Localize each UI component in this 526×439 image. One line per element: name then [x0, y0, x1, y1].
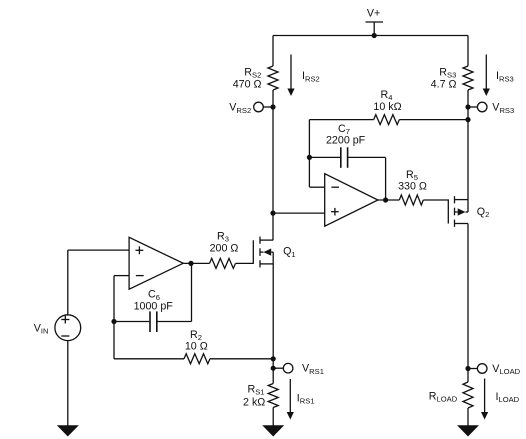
- transistor Q1 body arrow: [260, 249, 273, 256]
- junction C7 branch: [307, 155, 312, 160]
- wire RS1 to ground: [272, 408, 274, 426]
- wire RS2 to VRS2 node: [272, 90, 274, 107]
- wire R5 to Q2 gate: [423, 199, 448, 201]
- resistor R5: [399, 195, 423, 205]
- resistor RS1: [268, 384, 278, 408]
- wire VIN to U1 plus: [68, 250, 129, 315]
- label R4: [381, 89, 393, 102]
- wire feedback left vertical: [308, 120, 310, 187]
- transistor Q2 channel: [454, 196, 456, 227]
- wire R4 left lead: [309, 119, 373, 121]
- wire V+ rail to RS3: [467, 36, 469, 67]
- current arrow IRS1: [287, 379, 294, 420]
- label RS2: [244, 67, 261, 80]
- wire VRS3 to R4 junction: [467, 107, 469, 120]
- ground RS1: [262, 425, 284, 436]
- current arrow IRS3: [483, 55, 490, 97]
- label VRS3: [492, 102, 514, 115]
- value C6 1000 pF: [134, 301, 174, 313]
- svg-text:10 kΩ: 10 kΩ: [373, 101, 401, 113]
- label IRS1: [297, 393, 315, 406]
- node VRS2: [254, 102, 276, 112]
- resistor R4: [374, 115, 400, 125]
- label IRS2: [302, 70, 320, 83]
- junction R2 left rail: [271, 356, 276, 361]
- label R5: [406, 169, 418, 182]
- wire Q1 source to R2 junction: [272, 264, 274, 359]
- current arrow IRS2: [287, 55, 294, 97]
- label VRS2: [229, 102, 251, 115]
- wire U1 output: [183, 262, 209, 264]
- transistor Q2 drain tab: [455, 199, 469, 201]
- value R4 10 kohm: [373, 101, 401, 113]
- resistor RS2: [268, 66, 278, 90]
- svg-text:10 Ω: 10 Ω: [185, 340, 208, 352]
- junction U2 plus tap: [270, 211, 275, 216]
- transistor Q2 gate bar: [447, 199, 449, 223]
- label Q1: [283, 246, 296, 259]
- value R3 200 ohm: [210, 243, 239, 255]
- power V+ supply symbol: [366, 8, 384, 36]
- value RS2 470 ohm: [233, 79, 262, 91]
- resistor R2: [184, 354, 210, 364]
- wire right rail R4 to Q2: [467, 120, 469, 212]
- junction V+ to top rail: [372, 33, 377, 38]
- node VRS3: [465, 102, 487, 112]
- label RLOAD: [429, 391, 458, 404]
- wire VRS1 to RS1: [272, 368, 274, 383]
- capacitor C6: [150, 311, 157, 332]
- wire U2 output: [378, 199, 399, 201]
- svg-text:470 Ω: 470 Ω: [233, 79, 262, 91]
- svg-text:330 Ω: 330 Ω: [398, 180, 427, 192]
- label VLOAD: [492, 363, 520, 376]
- svg-text:4.7 Ω: 4.7 Ω: [431, 79, 457, 91]
- junction U1 output: [188, 261, 193, 266]
- resistor R3: [210, 258, 236, 268]
- junction C6 branch: [111, 319, 116, 324]
- svg-text:2 kΩ: 2 kΩ: [243, 396, 265, 408]
- label VIN: [34, 323, 49, 336]
- svg-text:1000 pF: 1000 pF: [134, 301, 174, 313]
- value R2 10 ohm: [185, 340, 208, 352]
- svg-text:200 Ω: 200 Ω: [210, 243, 239, 255]
- label R2: [190, 329, 202, 342]
- capacitor C7: [341, 147, 348, 168]
- wire R4 right lead: [399, 119, 468, 121]
- wire R2 left lead: [114, 358, 184, 360]
- node VLOAD: [465, 364, 487, 374]
- wire top rail: [273, 35, 468, 37]
- label RS3: [439, 67, 456, 80]
- wire RLOAD to ground: [467, 408, 469, 426]
- op-amp U1: [129, 237, 183, 289]
- wire U2 plus input: [273, 212, 325, 214]
- wire C6 left lead: [114, 321, 149, 323]
- wire left rail VRS2 to Q1 drain: [272, 107, 274, 240]
- wire VIN to ground: [67, 341, 69, 426]
- label R3: [217, 230, 229, 243]
- wire R2 left vertical: [113, 322, 115, 359]
- label VRS1: [302, 363, 324, 376]
- wire R2 junction to VRS1: [272, 359, 274, 368]
- ground load: [457, 425, 479, 436]
- transistor Q1 drain tab: [260, 239, 273, 241]
- ground VIN: [57, 425, 79, 436]
- wire RS3 to VRS3 node: [467, 90, 469, 107]
- resistor RLOAD: [463, 382, 473, 408]
- node VRS1: [271, 363, 293, 373]
- wire C7 left lead: [309, 156, 340, 158]
- svg-text:V+: V+: [367, 8, 380, 20]
- label C7: [338, 123, 350, 136]
- resistor RS3: [463, 66, 473, 90]
- transistor Q1 gate bar: [252, 240, 254, 264]
- junction R4 right rail: [465, 117, 470, 122]
- op-amp U2: [325, 174, 378, 227]
- wire R3 to Q1 gate: [236, 262, 254, 264]
- wire Q1 body to source: [272, 252, 274, 264]
- svg-text:2200 pF: 2200 pF: [326, 135, 366, 147]
- wire C7 right lead: [348, 157, 385, 200]
- wire C6 right lead: [158, 263, 192, 321]
- current arrow ILOAD: [481, 379, 488, 420]
- transistor Q2 body arrow: [455, 208, 469, 215]
- label C6: [148, 289, 160, 302]
- value RS3 4.7 ohm: [431, 79, 457, 91]
- label RS1: [247, 384, 264, 397]
- source VIN: [55, 315, 81, 341]
- wire U1 minus input: [114, 276, 129, 322]
- value R5 330 ohm: [398, 180, 427, 192]
- wire V+ rail to RS2: [272, 36, 274, 67]
- transistor Q2 source tab: [455, 223, 469, 225]
- wire U2 minus input: [309, 186, 324, 188]
- wire VLOAD to RLOAD: [467, 369, 469, 383]
- value C7 2200 pF: [326, 135, 366, 147]
- junction U2 output: [383, 197, 388, 202]
- wire R2 right lead: [210, 358, 273, 360]
- label Q2: [477, 206, 490, 219]
- transistor Q1 channel: [259, 237, 261, 268]
- value RS1 2 kohm: [243, 396, 265, 408]
- label IRS3: [496, 70, 514, 83]
- transistor Q1 source tab: [260, 263, 273, 265]
- wire Q2 source to VLOAD: [467, 224, 469, 369]
- label ILOAD: [496, 391, 520, 404]
